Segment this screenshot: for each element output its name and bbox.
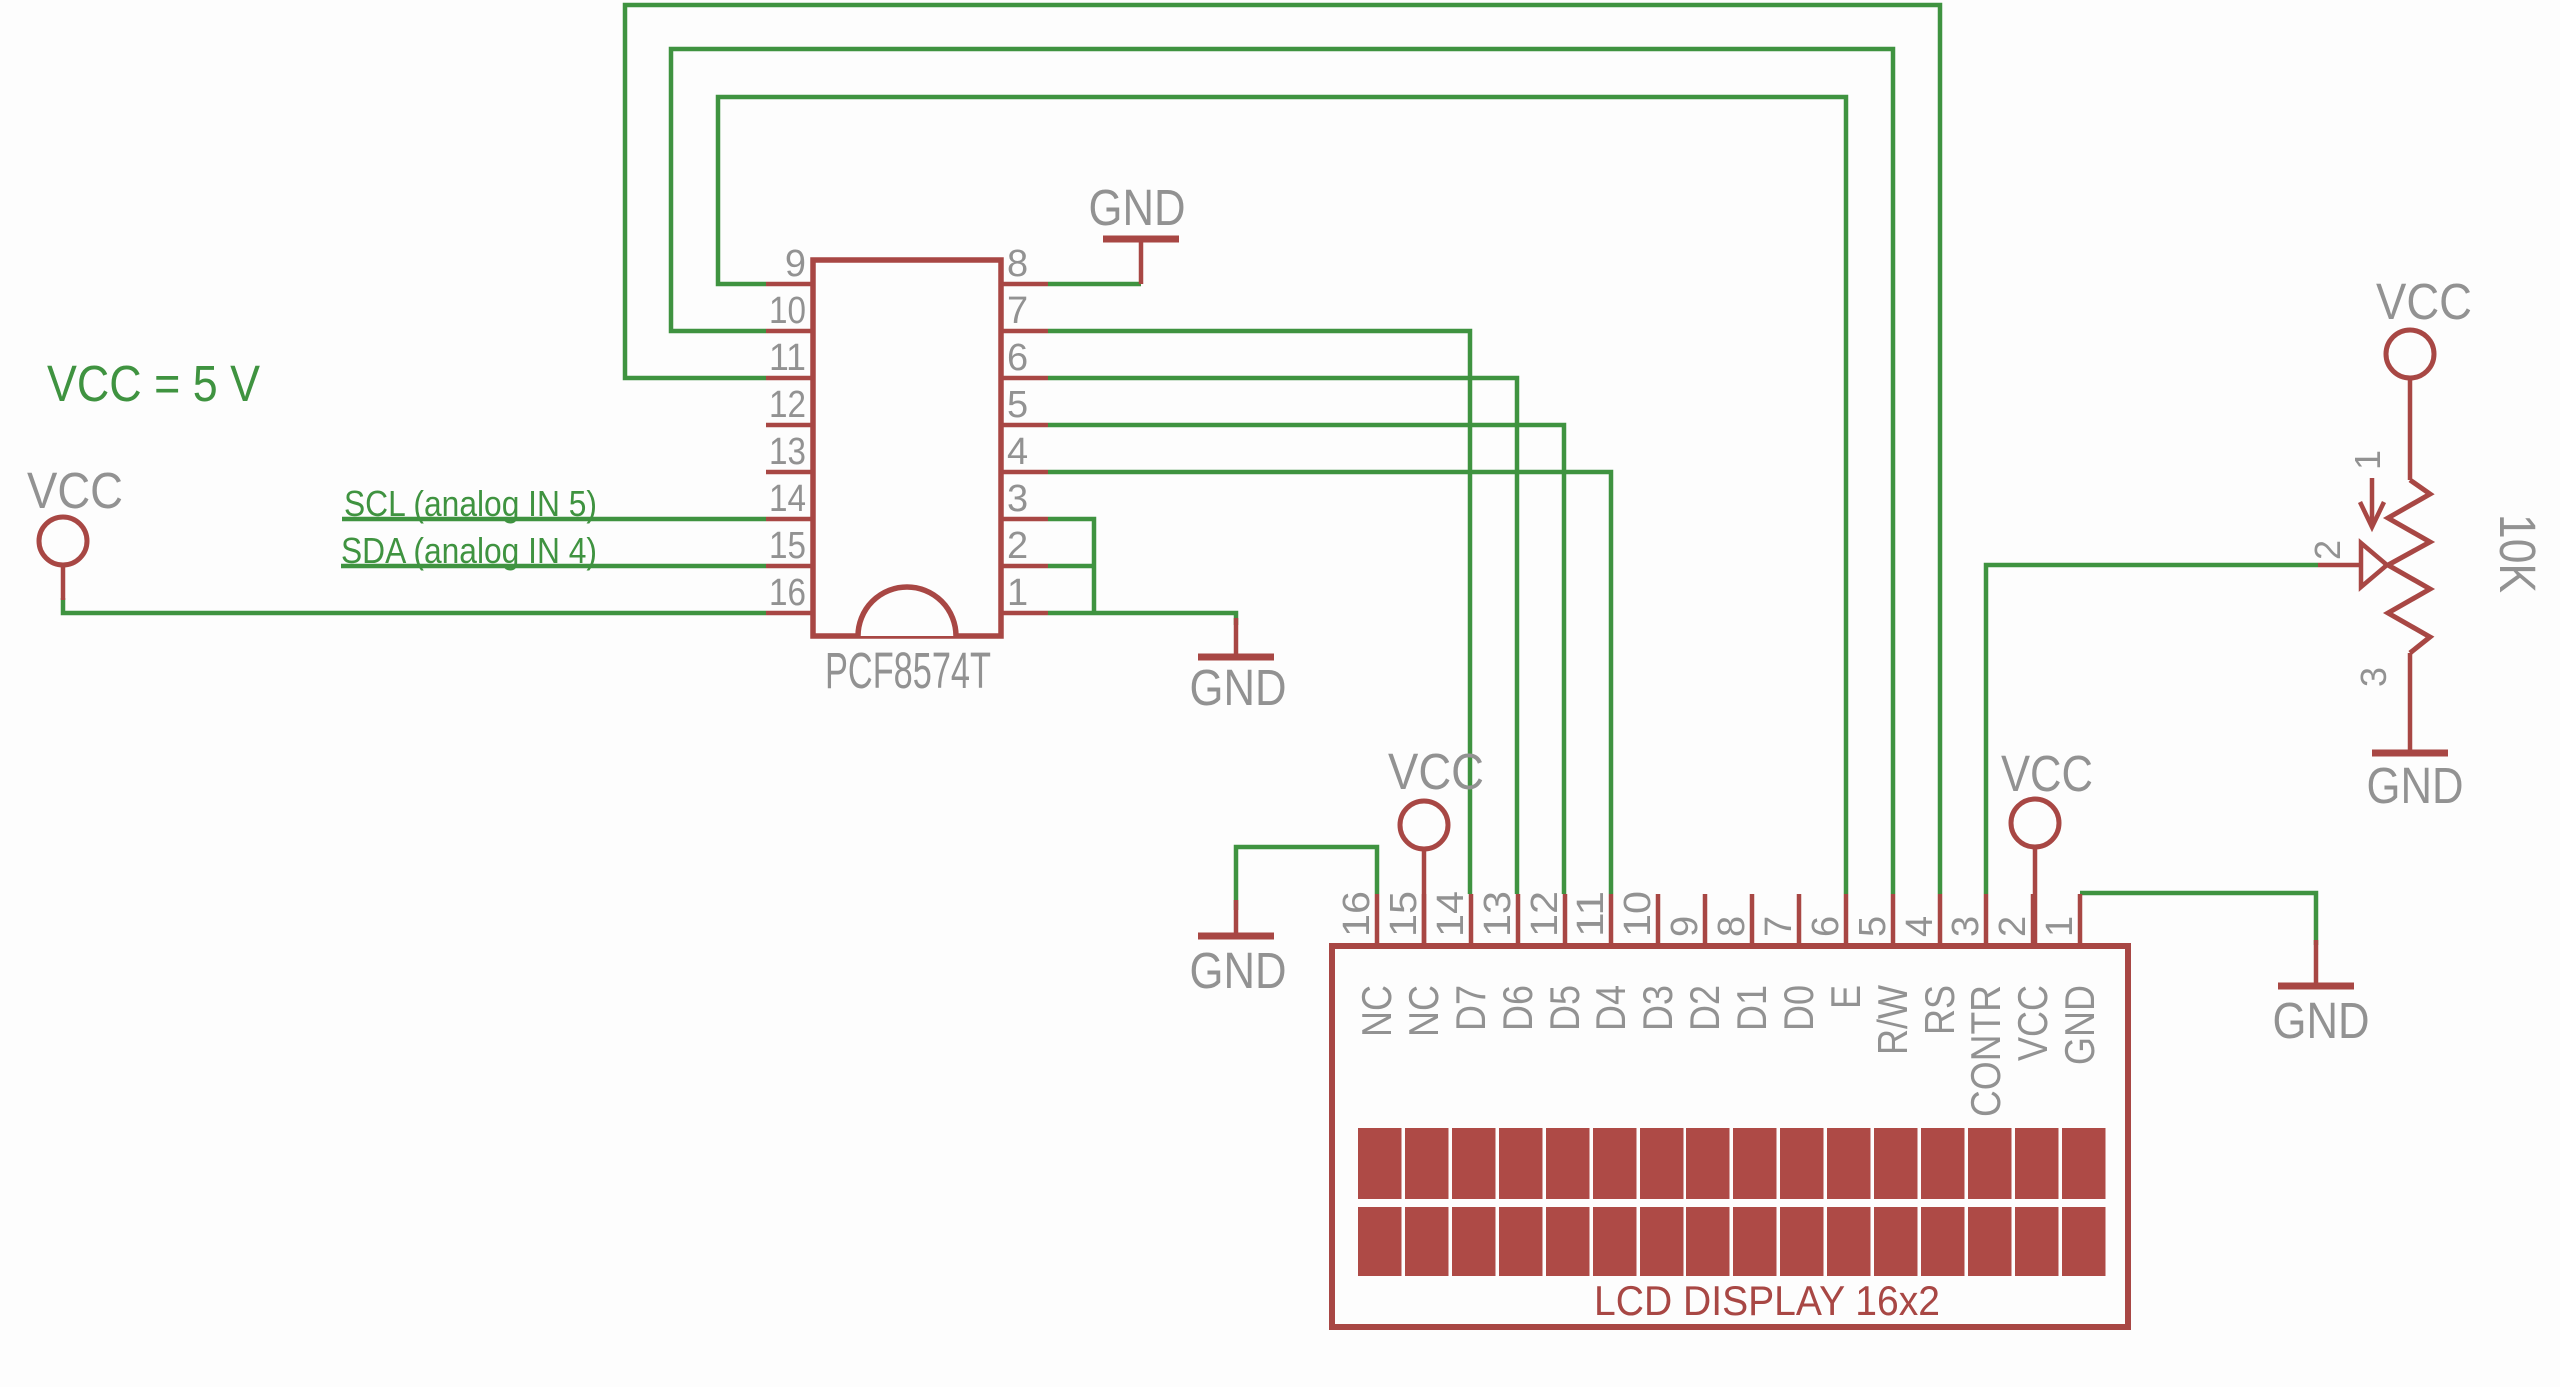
svg-text:10K: 10K [2489,514,2546,593]
LCD DISPLAY 16x2 body [1332,946,2128,1327]
svg-text:1: 1 [1007,572,1028,614]
svg-text:3: 3 [1007,478,1028,520]
GND symbol at LCD pin 16 [1190,900,1287,999]
svg-text:VCC: VCC [2001,745,2093,802]
GND symbol at potentiometer [2372,750,2448,757]
svg-text:7: 7 [1758,916,1800,937]
svg-text:D0: D0 [1775,985,1822,1031]
VCC symbol at LCD pin 15 [1388,743,1484,946]
svg-text:2: 2 [1992,916,2034,937]
wire net CONTR: LCD pin 3 to potentiometer wiper [1986,565,2318,894]
svg-text:11: 11 [769,337,806,379]
svg-text:4: 4 [1899,916,1941,937]
potentiometer adjust arrow [2370,478,2375,524]
wire SCL to IC pin 14 [342,517,766,522]
svg-text:GND: GND [1190,942,1287,999]
svg-text:16: 16 [769,572,806,614]
IC U1 PCF8574T body [813,260,1001,636]
IC pin 1 stub [1001,611,1048,616]
LCD pin name labels [1353,985,2103,1117]
wire net E loop: IC pin 9 to LCD pin 6 [718,97,1846,894]
svg-text:13: 13 [769,431,806,473]
svg-text:10: 10 [769,290,806,332]
IC pin 3 stub [1001,517,1048,522]
svg-text:3: 3 [2353,667,2394,687]
LCD pin numbers 16..1 [1336,891,2081,937]
svg-text:CONTR: CONTR [1962,985,2009,1117]
IC pin 14 stub [766,517,813,522]
svg-text:8: 8 [1711,916,1753,937]
wire IC pin 1 to GND [1048,613,1236,625]
svg-text:9: 9 [785,243,806,285]
wire net D6: IC pin 6 to LCD pin 13 [1048,378,1517,894]
svg-text:VCC: VCC [1388,743,1484,800]
wire net R/W loop: IC pin 10 to LCD pin 5 [671,49,1893,894]
IC pin 13 stub [766,470,813,475]
svg-text:3: 3 [1945,916,1987,937]
wire LCD pin 1 to GND [2080,893,2316,945]
svg-text:VCC: VCC [27,462,123,519]
svg-text:GND: GND [2273,992,2370,1049]
svg-text:1: 1 [2347,450,2388,470]
svg-text:14: 14 [1430,891,1472,937]
svg-text:R/W: R/W [1869,985,1916,1055]
potentiometer pin 3 wire [2408,653,2413,750]
GND symbol at LCD pin 1 [2273,940,2370,1049]
GND symbol at IC pins 1-3 [1190,618,1287,716]
svg-text:6: 6 [1007,337,1028,379]
IC pin 8 stub [1001,282,1048,287]
IC pin 4 stub [1001,470,1048,475]
potentiometer wiper stub [2318,563,2361,568]
svg-text:VCC: VCC [2009,985,2056,1061]
IC pin 5 stub [1001,423,1048,428]
svg-text:D7: D7 [1447,985,1494,1031]
svg-text:15: 15 [1383,891,1425,937]
svg-text:8: 8 [1007,243,1028,285]
wire SDA to IC pin 15 [341,564,766,569]
VCC symbol left [27,462,123,600]
wire net D4: IC pin 4 to LCD pin 11 [1048,472,1611,894]
wire IC pin 2 to node [1048,564,1094,569]
svg-text:D2: D2 [1681,985,1728,1031]
svg-text:2: 2 [2307,540,2348,560]
svg-text:GND: GND [1190,659,1287,716]
svg-text:NC: NC [1353,985,1400,1037]
wire net RS loop: IC pin 11 to LCD pin 4 [625,5,1940,894]
svg-text:D6: D6 [1494,985,1541,1031]
svg-text:SDA (analog IN 4): SDA (analog IN 4) [341,530,597,571]
svg-text:13: 13 [1477,891,1519,937]
IC pin 7 stub [1001,329,1048,334]
svg-text:SCL (analog IN 5): SCL (analog IN 5) [344,483,597,524]
wire IC pin 3 to node [1048,519,1094,613]
IC pin 12 stub [766,423,813,428]
svg-text:E: E [1822,985,1869,1009]
svg-text:D1: D1 [1728,985,1775,1031]
svg-text:15: 15 [769,525,806,567]
svg-text:D5: D5 [1541,985,1588,1031]
wire net D5: IC pin 5 to LCD pin 12 [1048,425,1564,894]
LCD pin stubs 16..1 [1377,894,2080,946]
svg-text:2: 2 [1007,525,1028,567]
svg-text:GND: GND [1089,179,1186,236]
potentiometer wiper triangle [2361,543,2387,587]
IC pin 15 stub [766,564,813,569]
IC pin 16 stub [766,611,813,616]
svg-text:5: 5 [1007,384,1028,426]
potentiometer resistor zigzag [2388,480,2430,653]
svg-text:9: 9 [1664,916,1706,937]
svg-text:D4: D4 [1587,985,1634,1031]
svg-text:RS: RS [1916,985,1963,1035]
potentiometer R1 10K [2307,273,2546,814]
wire IC pin 8 to GND [1048,282,1141,287]
svg-text:VCC = 5 V: VCC = 5 V [47,355,260,412]
LCD display cells row 2 [1358,1207,2106,1276]
VCC symbol at LCD pin 2 [2001,745,2093,946]
VCC symbol at potentiometer [2386,330,2434,378]
potentiometer pin 1 wire [2408,378,2413,480]
GND symbol at IC pin 8 [1089,179,1186,284]
svg-text:LCD DISPLAY 16x2: LCD DISPLAY 16x2 [1594,1277,1940,1324]
svg-text:14: 14 [769,478,806,520]
svg-text:10: 10 [1617,891,1659,937]
svg-text:6: 6 [1805,916,1847,937]
IC pin 10 stub [766,329,813,334]
svg-text:GND: GND [2367,757,2464,814]
IC pin 9 stub [766,282,813,287]
svg-text:NC: NC [1400,985,1447,1037]
svg-text:16: 16 [1336,891,1378,937]
svg-text:11: 11 [1570,891,1612,937]
svg-text:12: 12 [769,384,806,426]
svg-text:PCF8574T: PCF8574T [825,642,991,699]
LCD display cells row 1 [1358,1128,2106,1199]
IC pin 6 stub [1001,376,1048,381]
svg-text:5: 5 [1852,916,1894,937]
svg-text:4: 4 [1007,431,1028,473]
svg-text:GND: GND [2056,985,2103,1065]
svg-text:VCC: VCC [2376,273,2472,330]
wire VCC to IC pin 16 [63,598,766,613]
IC pin 2 stub [1001,564,1048,569]
svg-text:D3: D3 [1634,985,1681,1031]
svg-text:1: 1 [2039,916,2081,937]
wire net D7: IC pin 7 to LCD pin 14 [1048,331,1470,894]
IC pin 11 stub [766,376,813,381]
wire LCD pin 16 to GND [1236,847,1377,910]
svg-text:12: 12 [1524,891,1566,937]
svg-text:7: 7 [1007,290,1028,332]
